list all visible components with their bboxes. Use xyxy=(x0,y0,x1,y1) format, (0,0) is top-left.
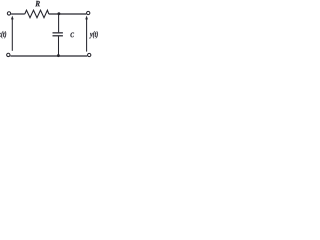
capacitor C bottom stem wire xyxy=(58,36,60,56)
background xyxy=(0,0,100,58)
voltage arrow y(t) shaft xyxy=(86,19,88,52)
terminal circle bottom-left xyxy=(7,53,10,56)
junction dot top node xyxy=(58,12,61,15)
voltage arrow x(t) shaft xyxy=(11,19,13,51)
terminal circle bottom-right xyxy=(88,53,91,56)
wire resistor to right terminal xyxy=(49,13,87,15)
label C xyxy=(70,33,74,38)
terminal circle top-right xyxy=(87,11,90,14)
label R xyxy=(35,1,40,6)
wire top-left to resistor xyxy=(11,13,25,15)
voltage arrow x(t) head xyxy=(11,16,13,19)
bottom rail wire xyxy=(10,55,87,57)
terminal circle top-left xyxy=(7,12,10,15)
capacitor C top stem wire xyxy=(58,14,60,32)
voltage arrow y(t) head xyxy=(85,16,87,19)
label x(t) xyxy=(0,31,6,38)
resistor R1 zigzag xyxy=(25,10,49,18)
junction dot bottom node xyxy=(57,54,60,57)
capacitor C bottom plate xyxy=(53,35,63,37)
capacitor C top plate xyxy=(53,32,63,34)
label y(t) xyxy=(89,31,97,39)
